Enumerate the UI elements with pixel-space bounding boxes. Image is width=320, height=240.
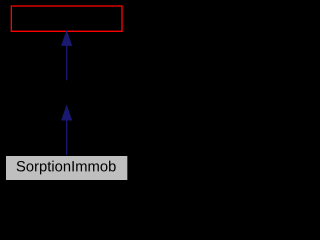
node Node1: SorptionImmob (current class, grey filled) bbox=[5, 155, 128, 180]
edge Node2->Node1: inheritance arrow (lower) bbox=[62, 107, 71, 155]
edge Node3->Node2: inheritance arrow (upper) bbox=[62, 32, 71, 80]
inheritance graph for SorptionImmob bbox=[0, 0, 133, 187]
node Node2: middle base class (invisible black on black) bbox=[11, 81, 122, 106]
svg-text:ReactionTerm: ReactionTerm bbox=[26, 85, 108, 100]
svg-text:EquationBase: EquationBase bbox=[25, 10, 108, 25]
node Node3: truncated base class (red border) bbox=[11, 6, 122, 31]
